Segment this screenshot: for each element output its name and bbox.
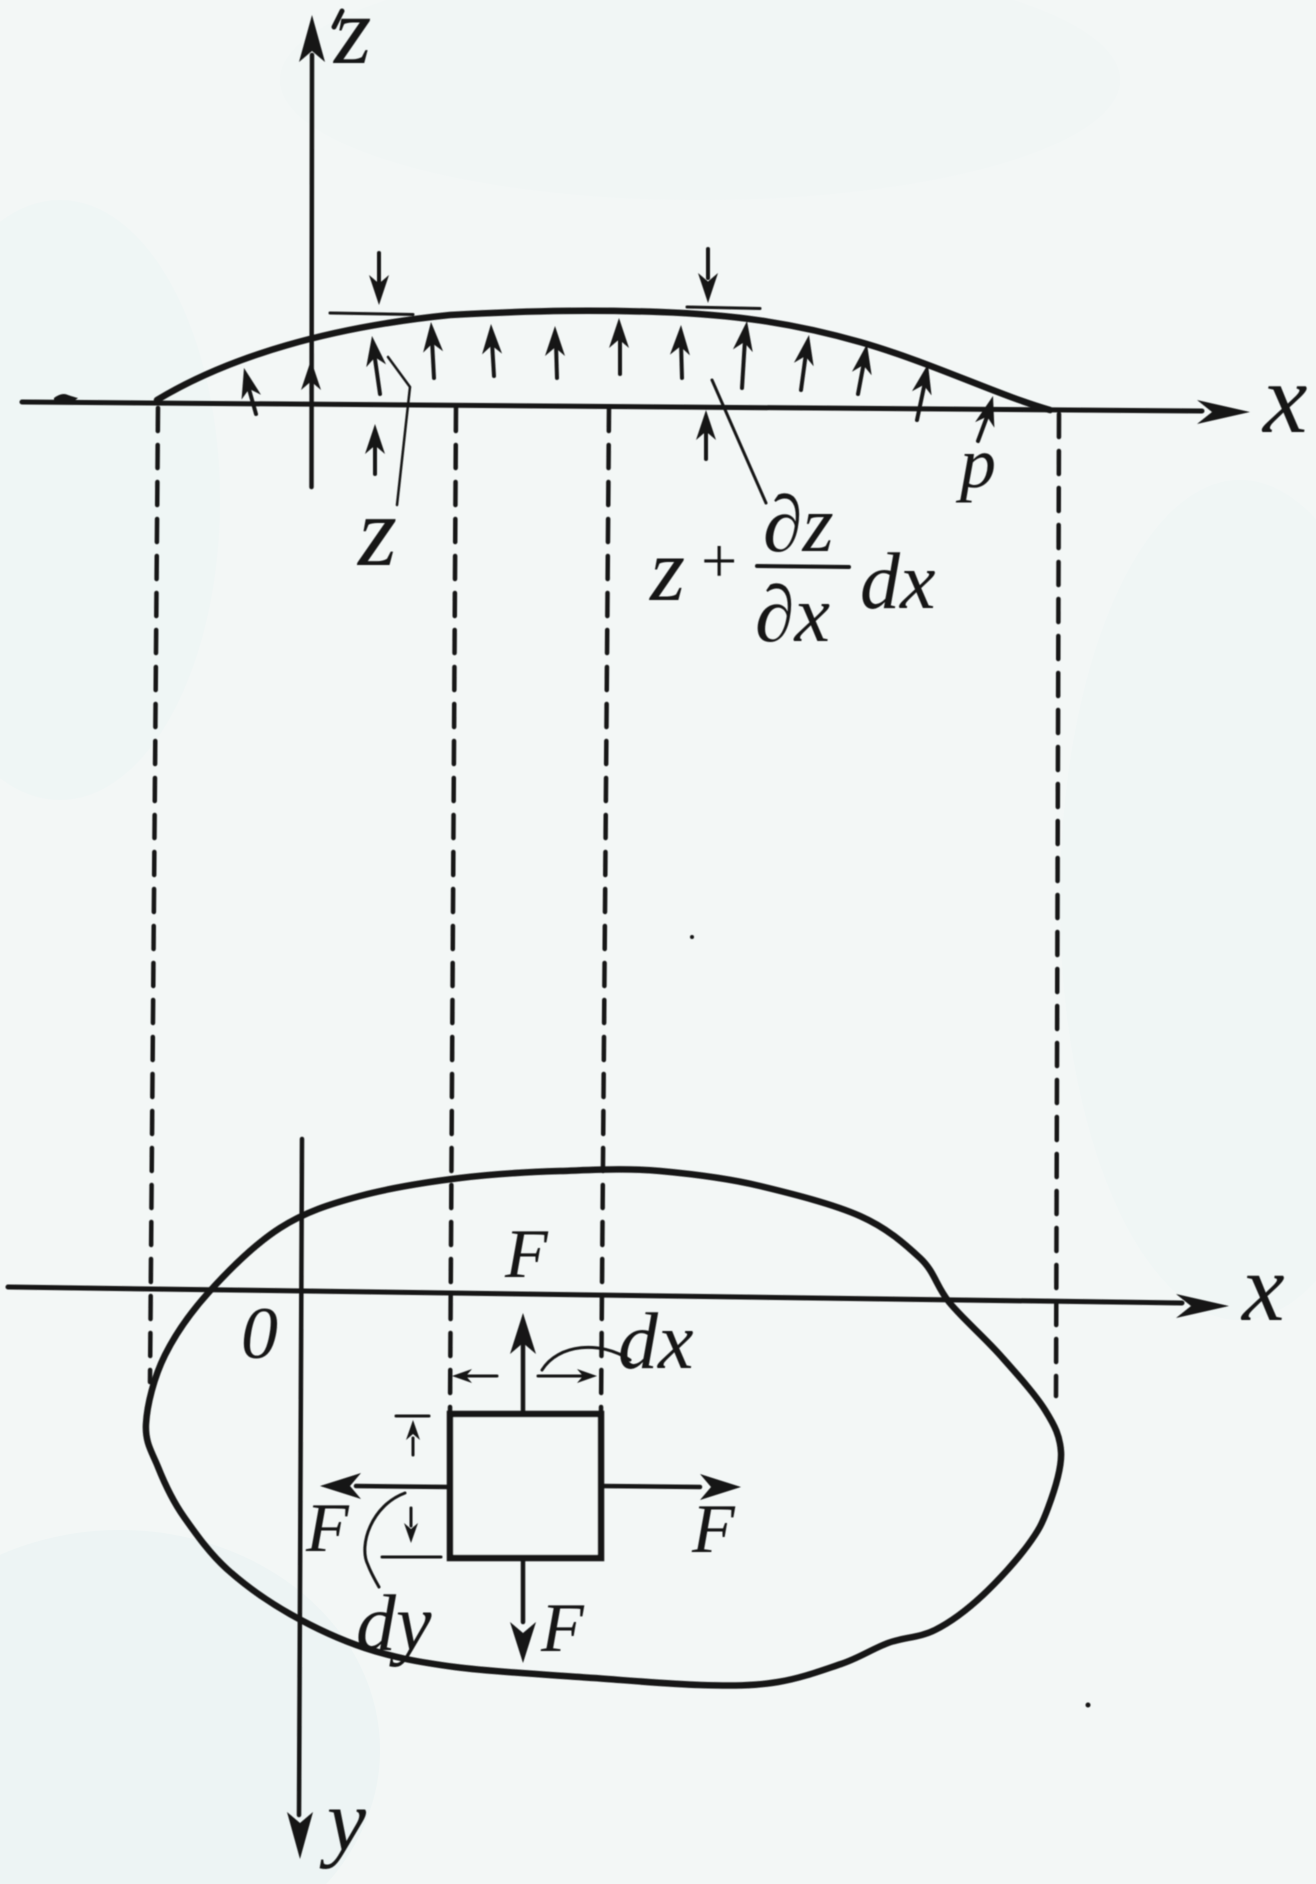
down arrow z (377, 253, 381, 282)
leader to formula (712, 380, 766, 503)
y-axis arrowhead (287, 1812, 313, 1859)
F arrow right (601, 1486, 700, 1487)
below-axis arrow right (704, 428, 708, 459)
dx leader curve (542, 1347, 630, 1370)
svg-text:dx: dx (618, 1298, 694, 1386)
F arrow down (521, 1558, 526, 1622)
y-axis (299, 1139, 302, 1815)
dx dimension left arrow (463, 1375, 497, 1378)
down arrow z+dz (706, 249, 710, 278)
dy T-bar (396, 1415, 429, 1418)
svg-text:x: x (1261, 343, 1307, 454)
pressure arrow 11 (858, 362, 864, 394)
square element dx dy (450, 1414, 601, 1558)
pressure arrow 4 (432, 340, 434, 378)
tick line z+dz (687, 307, 760, 309)
dy down arrow (410, 1508, 413, 1526)
svg-text:F: F (540, 1590, 585, 1667)
svg-text:F: F (305, 1490, 350, 1567)
lower x-axis arrowhead (1176, 1294, 1229, 1318)
svg-text:x: x (1240, 1234, 1285, 1341)
pressure arrow 3 (374, 352, 380, 394)
dx dimension right arrow (538, 1375, 586, 1378)
svg-text:dx: dx (860, 538, 936, 626)
svg-text:y: y (319, 1773, 367, 1870)
F arrow left (356, 1486, 450, 1487)
top x-axis (22, 402, 1202, 411)
svg-text:z: z (356, 476, 397, 587)
svg-text:∂x: ∂x (755, 571, 830, 659)
svg-text:z: z (332, 0, 371, 84)
membrane curve (157, 311, 1050, 410)
z-axis (309, 55, 314, 487)
dy up arrow (412, 1438, 415, 1455)
pressure arrow 8 (681, 343, 682, 378)
tick line z (330, 313, 413, 315)
svg-text:p: p (955, 423, 996, 503)
dashed line D1 (150, 408, 158, 1382)
speck dot mid (690, 935, 694, 939)
dy bottom tick (382, 1556, 441, 1559)
z-axis arrowhead (299, 15, 325, 62)
dashed line D2 (450, 408, 456, 1413)
svg-text:+: + (697, 525, 740, 596)
smudge on axis (54, 394, 78, 402)
speck dot lower right (1086, 1703, 1091, 1708)
svg-text:z: z (648, 521, 685, 620)
leader to z label (388, 357, 410, 505)
svg-text:F: F (504, 1216, 549, 1293)
svg-text:∂z: ∂z (763, 481, 834, 569)
dashed line D3 (601, 408, 609, 1413)
dashed line D4 (1056, 414, 1059, 1396)
pressure arrow p (978, 414, 988, 441)
formula fraction bar (757, 566, 849, 567)
pressure arrow 12 (917, 382, 925, 420)
below-axis arrow left (373, 442, 377, 474)
pressure arrow 9 (742, 339, 745, 388)
z-axis label tick (334, 11, 342, 27)
blob boundary (146, 1169, 1061, 1685)
svg-text:0: 0 (241, 1293, 278, 1375)
pressure arrow 7 (618, 336, 622, 374)
dy leader curve (365, 1493, 405, 1587)
svg-text:F: F (691, 1491, 736, 1568)
top x-axis arrowhead (1197, 400, 1250, 424)
pressure arrow 6 (556, 344, 557, 378)
pressure arrow 2 (on z-axis) (301, 360, 321, 390)
pressure arrow 10 (801, 353, 806, 390)
svg-text:dy: dy (356, 1580, 432, 1668)
pressure arrow 1 (247, 382, 256, 414)
lower x-axis (8, 1287, 1182, 1303)
F arrow up (521, 1345, 526, 1414)
pressure arrow 5 (492, 342, 494, 376)
